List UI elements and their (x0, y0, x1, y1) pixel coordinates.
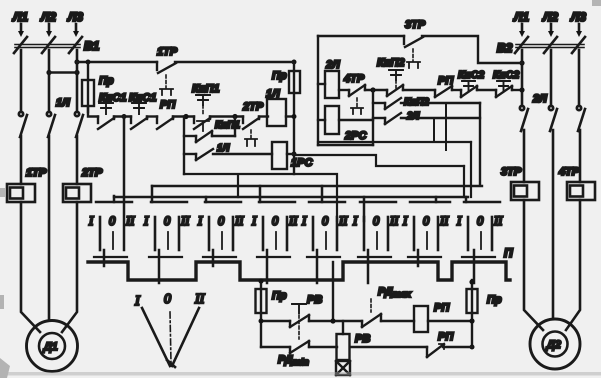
node Л2 (right) (542, 10, 558, 37)
wire loop top (318, 35, 404, 37)
svg-text:Пр: Пр (487, 294, 502, 306)
wire tap2 (49, 71, 77, 74)
svg-text:КнП2: КнП2 (377, 57, 404, 69)
svg-text:3ТР: 3ТР (405, 19, 426, 31)
contact КнП1 linked (row2) (184, 120, 240, 142)
scan smudge top-right (592, 0, 601, 6)
wire (428, 320, 472, 322)
contact 2ТР (break) (242, 101, 264, 146)
svg-text:4ТР: 4ТР (343, 73, 365, 85)
controller group 6 (352, 197, 399, 283)
svg-text:II: II (493, 214, 503, 228)
contact 3ТР (break) (404, 19, 426, 68)
svg-text:РП: РП (434, 302, 450, 314)
scan smudge left edge (0, 188, 5, 197)
svg-text:Л1: Л1 (513, 10, 529, 24)
svg-text:2Л: 2Л (406, 111, 421, 122)
wire phase3 right (578, 50, 581, 106)
wire below 1Л (20, 136, 23, 184)
wire (259, 115, 268, 117)
node Л1 (left) (12, 10, 28, 37)
svg-text:II: II (125, 214, 135, 228)
wire V434 (433, 118, 435, 141)
fuse Пр (bottom left) (256, 278, 287, 313)
coil 2Л (318, 59, 349, 98)
wire Hy150 (463, 166, 465, 197)
contact РП (chevron) (427, 331, 454, 357)
svg-text:2Л: 2Л (532, 93, 547, 105)
svg-text:II: II (234, 214, 244, 228)
node Л1 (right) (513, 10, 529, 37)
wire (147, 115, 157, 117)
fuse Пр (left-right) (272, 62, 300, 117)
wire / node (365, 89, 387, 91)
svg-text:КнП1: КнП1 (192, 83, 219, 95)
svg-text:II: II (338, 214, 348, 228)
wire V480 (479, 103, 481, 184)
motor Д2 (530, 319, 580, 369)
svg-text:0: 0 (164, 214, 171, 228)
svg-text:0: 0 (164, 292, 171, 307)
svg-text:II: II (288, 214, 298, 228)
wire top control left 2 (175, 61, 294, 63)
node Л3 (right) (570, 10, 586, 37)
svg-text:I: I (301, 214, 307, 228)
scan smudge bottom-left corner (0, 358, 10, 378)
coil 1Л (266, 88, 294, 126)
node control tap right (519, 60, 524, 65)
svg-text:КнС2: КнС2 (458, 69, 484, 81)
thermal element 2ТР (63, 167, 103, 202)
wire top control left (77, 61, 157, 63)
wire fuse1 down (260, 313, 262, 347)
wire loop top right (422, 36, 522, 63)
fuse Пр (bottom right) (467, 279, 502, 313)
svg-text:1Л: 1Л (56, 97, 70, 109)
svg-text:I: I (402, 214, 408, 228)
controller group 7 (402, 197, 450, 266)
svg-text:I: I (197, 214, 203, 228)
button КнС2 no.2 (477, 69, 519, 97)
svg-text:Д1: Д1 (42, 341, 58, 353)
button КнП1 (192, 83, 219, 129)
wire Hy141 (470, 142, 472, 197)
wire long vertical g1 (123, 117, 126, 251)
svg-text:Л1: Л1 (12, 10, 28, 24)
coil 1РС (272, 142, 313, 169)
svg-text:РП: РП (160, 99, 176, 111)
scan shadow bottom edge (0, 372, 601, 376)
coil 2РС (318, 106, 373, 142)
wire (114, 115, 131, 117)
svg-text:I: I (251, 214, 257, 228)
svg-text:0: 0 (423, 214, 430, 228)
button КнП2 (377, 57, 404, 96)
controller group 5 (301, 186, 348, 283)
svg-text:В1: В1 (84, 39, 100, 53)
controller group 1 (88, 196, 135, 266)
wire box upper (294, 142, 471, 166)
svg-text:I: I (134, 294, 141, 309)
button КнС2 no.1 (452, 69, 484, 97)
svg-text:I: I (143, 214, 149, 228)
wire heater3 to motor (524, 200, 543, 330)
svg-text:Пр: Пр (99, 75, 114, 87)
svg-text:4ТР: 4ТР (558, 166, 580, 178)
svg-text:1Л: 1Л (217, 143, 231, 154)
svg-text:II: II (180, 214, 190, 228)
svg-text:0: 0 (272, 214, 279, 228)
wire heater2 to motor (62, 202, 77, 332)
wire right vertical (293, 117, 295, 175)
contact 1ТР (break) (157, 46, 178, 95)
svg-text:3ТР: 3ТР (501, 166, 522, 178)
controller group 8 (456, 197, 503, 283)
contact РДmax (362, 286, 412, 327)
svg-text:0: 0 (109, 214, 116, 228)
wire to phase / node (512, 89, 522, 91)
wire phase1 right (521, 50, 524, 106)
relay coil РП (414, 302, 450, 332)
wire drop from bus (332, 262, 334, 321)
contact РВ (upper, with actuator) (261, 294, 322, 327)
svg-text:1РС: 1РС (291, 157, 313, 169)
wire (381, 320, 414, 322)
wire rail left (88, 106, 98, 117)
svg-text:РВ: РВ (355, 333, 370, 345)
button КнС1 no.2 (129, 92, 156, 129)
wire phase2 left (48, 50, 51, 112)
node control tap 2 (46, 70, 51, 75)
branch vertical right (372, 90, 374, 145)
wire phase2 right (550, 50, 553, 106)
svg-text:Пр: Пр (272, 70, 287, 82)
svg-text:I: I (352, 214, 358, 228)
svg-text:РВ: РВ (307, 294, 322, 306)
relay coil РВ (337, 321, 371, 360)
controller group 4 (251, 186, 298, 283)
branch vertical mid (234, 117, 236, 137)
svg-text:1ТР: 1ТР (26, 167, 47, 179)
controller group 3 (197, 197, 244, 266)
motor Д1 (27, 321, 78, 372)
plug symbol (336, 361, 350, 375)
contact 1Л aux (row3) (184, 143, 272, 160)
wire heater4 to motor (566, 200, 580, 330)
contact КнП2 aux (row) (373, 97, 480, 109)
switch B1 (14, 37, 100, 53)
svg-text:0: 0 (477, 214, 484, 228)
svg-text:2ТР: 2ТР (242, 101, 264, 113)
svg-text:II: II (439, 214, 449, 228)
thermal element 1ТР (7, 167, 47, 202)
wire fuse2 down (471, 313, 473, 347)
wire H2 (184, 174, 337, 221)
wire loop bottom (318, 144, 373, 146)
wire phase3 left (76, 50, 79, 112)
svg-text:Л3: Л3 (570, 10, 586, 24)
svg-text:2РС: 2РС (344, 130, 367, 142)
contactor 2Л main contacts (520, 93, 585, 131)
svg-text:Л3: Л3 (67, 10, 83, 24)
wire H4 (114, 196, 468, 198)
svg-text:2ТР: 2ТР (81, 167, 103, 179)
wire / nodes (210, 115, 243, 117)
svg-text:0: 0 (218, 214, 225, 228)
node Л3 (left) (67, 10, 83, 37)
svg-text:В2: В2 (497, 41, 513, 55)
selector I-0-II (134, 292, 206, 367)
wire (173, 115, 194, 117)
wire H3 (152, 185, 482, 187)
svg-text:II: II (194, 292, 206, 307)
svg-text:0: 0 (373, 214, 380, 228)
svg-text:РДmin: РДmin (278, 354, 309, 367)
controller common bus (stepped) (88, 262, 510, 280)
wire V446 (445, 103, 447, 150)
button КнС1 no.1 (98, 92, 126, 129)
svg-text:1ТР: 1ТР (157, 46, 178, 58)
wire heater1 to motor (21, 202, 40, 332)
svg-text:Д2: Д2 (545, 339, 561, 351)
svg-text:Л2: Л2 (40, 10, 56, 24)
svg-text:РП: РП (438, 331, 454, 343)
contact РВ (lower, delayed) (261, 315, 309, 367)
node rail junctions (259, 319, 264, 324)
svg-text:0: 0 (322, 214, 329, 228)
contact РП (right) (435, 75, 454, 97)
wire (403, 89, 435, 91)
svg-text:Л2: Л2 (542, 10, 558, 24)
svg-text:КнС2: КнС2 (493, 69, 519, 81)
thermal element 4ТР (558, 166, 595, 200)
thermal element 3ТР (501, 166, 539, 200)
node fuse tap (86, 60, 91, 65)
svg-text:2Л: 2Л (325, 59, 340, 71)
wire rail B (309, 346, 337, 348)
switch B2 (497, 37, 585, 55)
svg-text:I: I (456, 214, 462, 228)
contactor 1Л main contacts (19, 97, 83, 137)
svg-text:РДmax: РДmax (378, 286, 412, 299)
svg-text:Пр: Пр (272, 290, 287, 302)
wire loop left vertical (317, 36, 319, 145)
contact РП (aux, left) (157, 99, 176, 129)
node control tap 1 (74, 59, 79, 64)
svg-text:I: I (88, 214, 94, 228)
svg-text:П: П (504, 246, 513, 260)
svg-text:КнП1: КнП1 (215, 120, 240, 131)
wire below 2Л (523, 130, 526, 182)
controller finger combs (94, 256, 495, 258)
contact 2Л aux (row) (373, 111, 480, 124)
wire phase1 left (20, 50, 23, 112)
wire rail B end (443, 346, 472, 348)
svg-text:II: II (389, 214, 399, 228)
wire rail A (309, 320, 362, 322)
controller group 2 (143, 186, 190, 283)
fuse Пр (left) (82, 62, 114, 112)
branch vertical left (183, 117, 185, 175)
node Л2 (left) (40, 10, 56, 37)
contact 4ТР (break) (343, 73, 365, 114)
wire rail B right (350, 346, 427, 348)
